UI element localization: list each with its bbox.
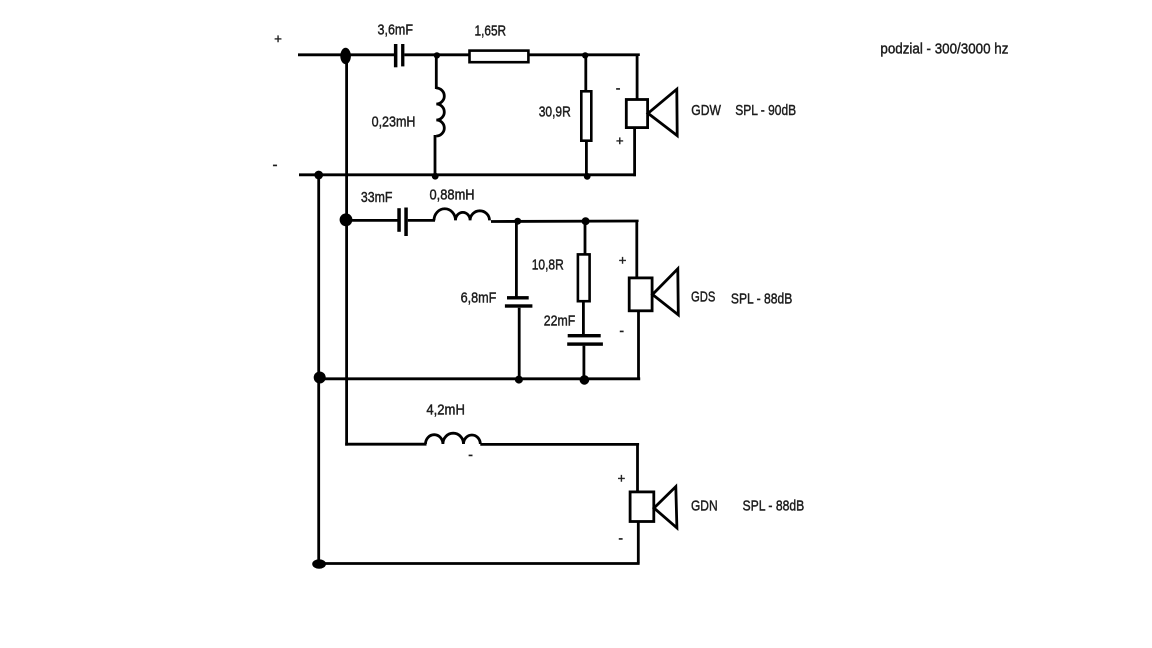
- wire capacitor C4 down to mid bus: [583, 346, 586, 380]
- node F (30,9R bottom junction): [584, 173, 591, 180]
- wire capacitor to resistor R1: [404, 53, 469, 56]
- svg-text:3,6mF: 3,6mF: [378, 23, 414, 39]
- wire GDN speaker down to bottom bus: [637, 522, 640, 564]
- svg-text:-: -: [616, 79, 621, 95]
- wire node C down to resistor R2: [584, 55, 587, 92]
- capacitor C4 22mF: [567, 334, 603, 346]
- capacitor C1 3,6mF: [394, 44, 405, 67]
- svg-text:GDW: GDW: [691, 102, 721, 119]
- svg-text:-: -: [468, 446, 473, 462]
- wire resistor R3 down to capacitor C4: [582, 301, 585, 334]
- wire inductor L1 down to minus bus: [434, 135, 437, 176]
- wire vertical A (+ feed down to mid and low sections): [345, 56, 348, 446]
- svg-text:SPL - 88dB: SPL - 88dB: [743, 497, 805, 514]
- node J mid-bus left junction: [314, 372, 326, 384]
- svg-text:+: +: [618, 471, 626, 486]
- inductor L3 4,2mH: [426, 433, 481, 444]
- wire GDS corner down to speaker: [635, 221, 638, 278]
- speaker GDN box: [630, 492, 654, 522]
- wire GDS speaker down to mid bus: [637, 311, 640, 379]
- svg-text:-: -: [618, 530, 623, 546]
- speaker GDN cone: [654, 487, 677, 528]
- speaker GDS box: [629, 278, 652, 311]
- node D minus-bus junction: [314, 171, 323, 180]
- svg-text:0,23mH: 0,23mH: [372, 114, 416, 130]
- wire node H down to capacitor C3: [515, 221, 518, 297]
- svg-text:+: +: [616, 133, 624, 148]
- resistor R2 30,9R: [581, 91, 591, 140]
- wire corner down to GDW speaker: [636, 55, 639, 100]
- svg-text:10,8R: 10,8R: [532, 258, 564, 274]
- svg-text:+: +: [274, 31, 282, 46]
- speaker GDS cone: [653, 269, 679, 315]
- svg-text:SPL - 90dB: SPL - 90dB: [735, 102, 796, 119]
- inductor L1 0,23mH: [436, 88, 444, 136]
- svg-text:GDN: GDN: [691, 498, 718, 515]
- node E (L1 bottom junction): [432, 173, 439, 180]
- wire node G to capacitor C2: [346, 219, 398, 222]
- resistor R3 10,8R: [578, 254, 590, 301]
- wire node B down to inductor L1: [435, 55, 438, 89]
- wire vertical B (minus feed down): [317, 175, 320, 564]
- node B junction (0,23mH tap): [434, 52, 440, 58]
- svg-text:+: +: [619, 253, 627, 268]
- svg-text:4,2mH: 4,2mH: [426, 403, 465, 419]
- node K (C3 bottom junction): [515, 376, 523, 384]
- svg-text:30,9R: 30,9R: [539, 105, 571, 121]
- wire GDW speaker down to minus bus: [633, 128, 636, 177]
- wire inductor L2 to GDS corner: [491, 221, 637, 222]
- inductor L2 0,88mH: [434, 209, 490, 221]
- wire node I down to resistor R3: [584, 221, 587, 255]
- node G mid-band tap junction: [340, 213, 353, 226]
- svg-text:1,65R: 1,65R: [475, 23, 507, 39]
- node C junction (30,9R tap): [582, 52, 588, 58]
- svg-text:33mF: 33mF: [361, 190, 393, 206]
- node H (6,8mF tap): [514, 218, 521, 225]
- wire minus bus: [299, 173, 636, 176]
- speaker GDW box: [626, 100, 647, 128]
- resistor R1 1,65R: [470, 51, 529, 63]
- wire resistor R2 down to minus bus: [585, 141, 588, 175]
- wire mid bus: [318, 377, 640, 380]
- node A junction on + wire: [340, 48, 351, 64]
- svg-text:6,8mF: 6,8mF: [461, 290, 497, 306]
- svg-text:22mF: 22mF: [544, 314, 575, 330]
- svg-text:GDS: GDS: [691, 289, 715, 306]
- svg-text:podzial - 300/3000 hz: podzial - 300/3000 hz: [880, 40, 1008, 57]
- wire corner A to inductor L3: [345, 443, 426, 446]
- node I (10,8R tap): [582, 217, 590, 225]
- svg-text:-: -: [619, 322, 624, 338]
- capacitor C3 6,8mF: [505, 296, 533, 308]
- node M bottom-left junction: [312, 559, 326, 568]
- wire + input to capacitor: [298, 53, 394, 56]
- svg-text:0,88mH: 0,88mH: [430, 188, 475, 204]
- wire capacitor C2 to inductor L2: [408, 219, 435, 222]
- wire capacitor C3 down to mid bus: [518, 308, 521, 380]
- wire GDN corner down to speaker: [636, 444, 639, 492]
- capacitor C2 33mF: [397, 208, 408, 237]
- wire inductor L3 to GDN corner: [480, 444, 637, 445]
- speaker GDW cone: [648, 89, 677, 135]
- node L (C4 bottom junction): [580, 375, 590, 385]
- svg-text:-: -: [273, 157, 278, 174]
- wire resistor R1 to GDW corner: [528, 55, 638, 56]
- svg-text:SPL - 88dB: SPL - 88dB: [731, 291, 792, 308]
- wire bottom bus: [319, 562, 640, 565]
